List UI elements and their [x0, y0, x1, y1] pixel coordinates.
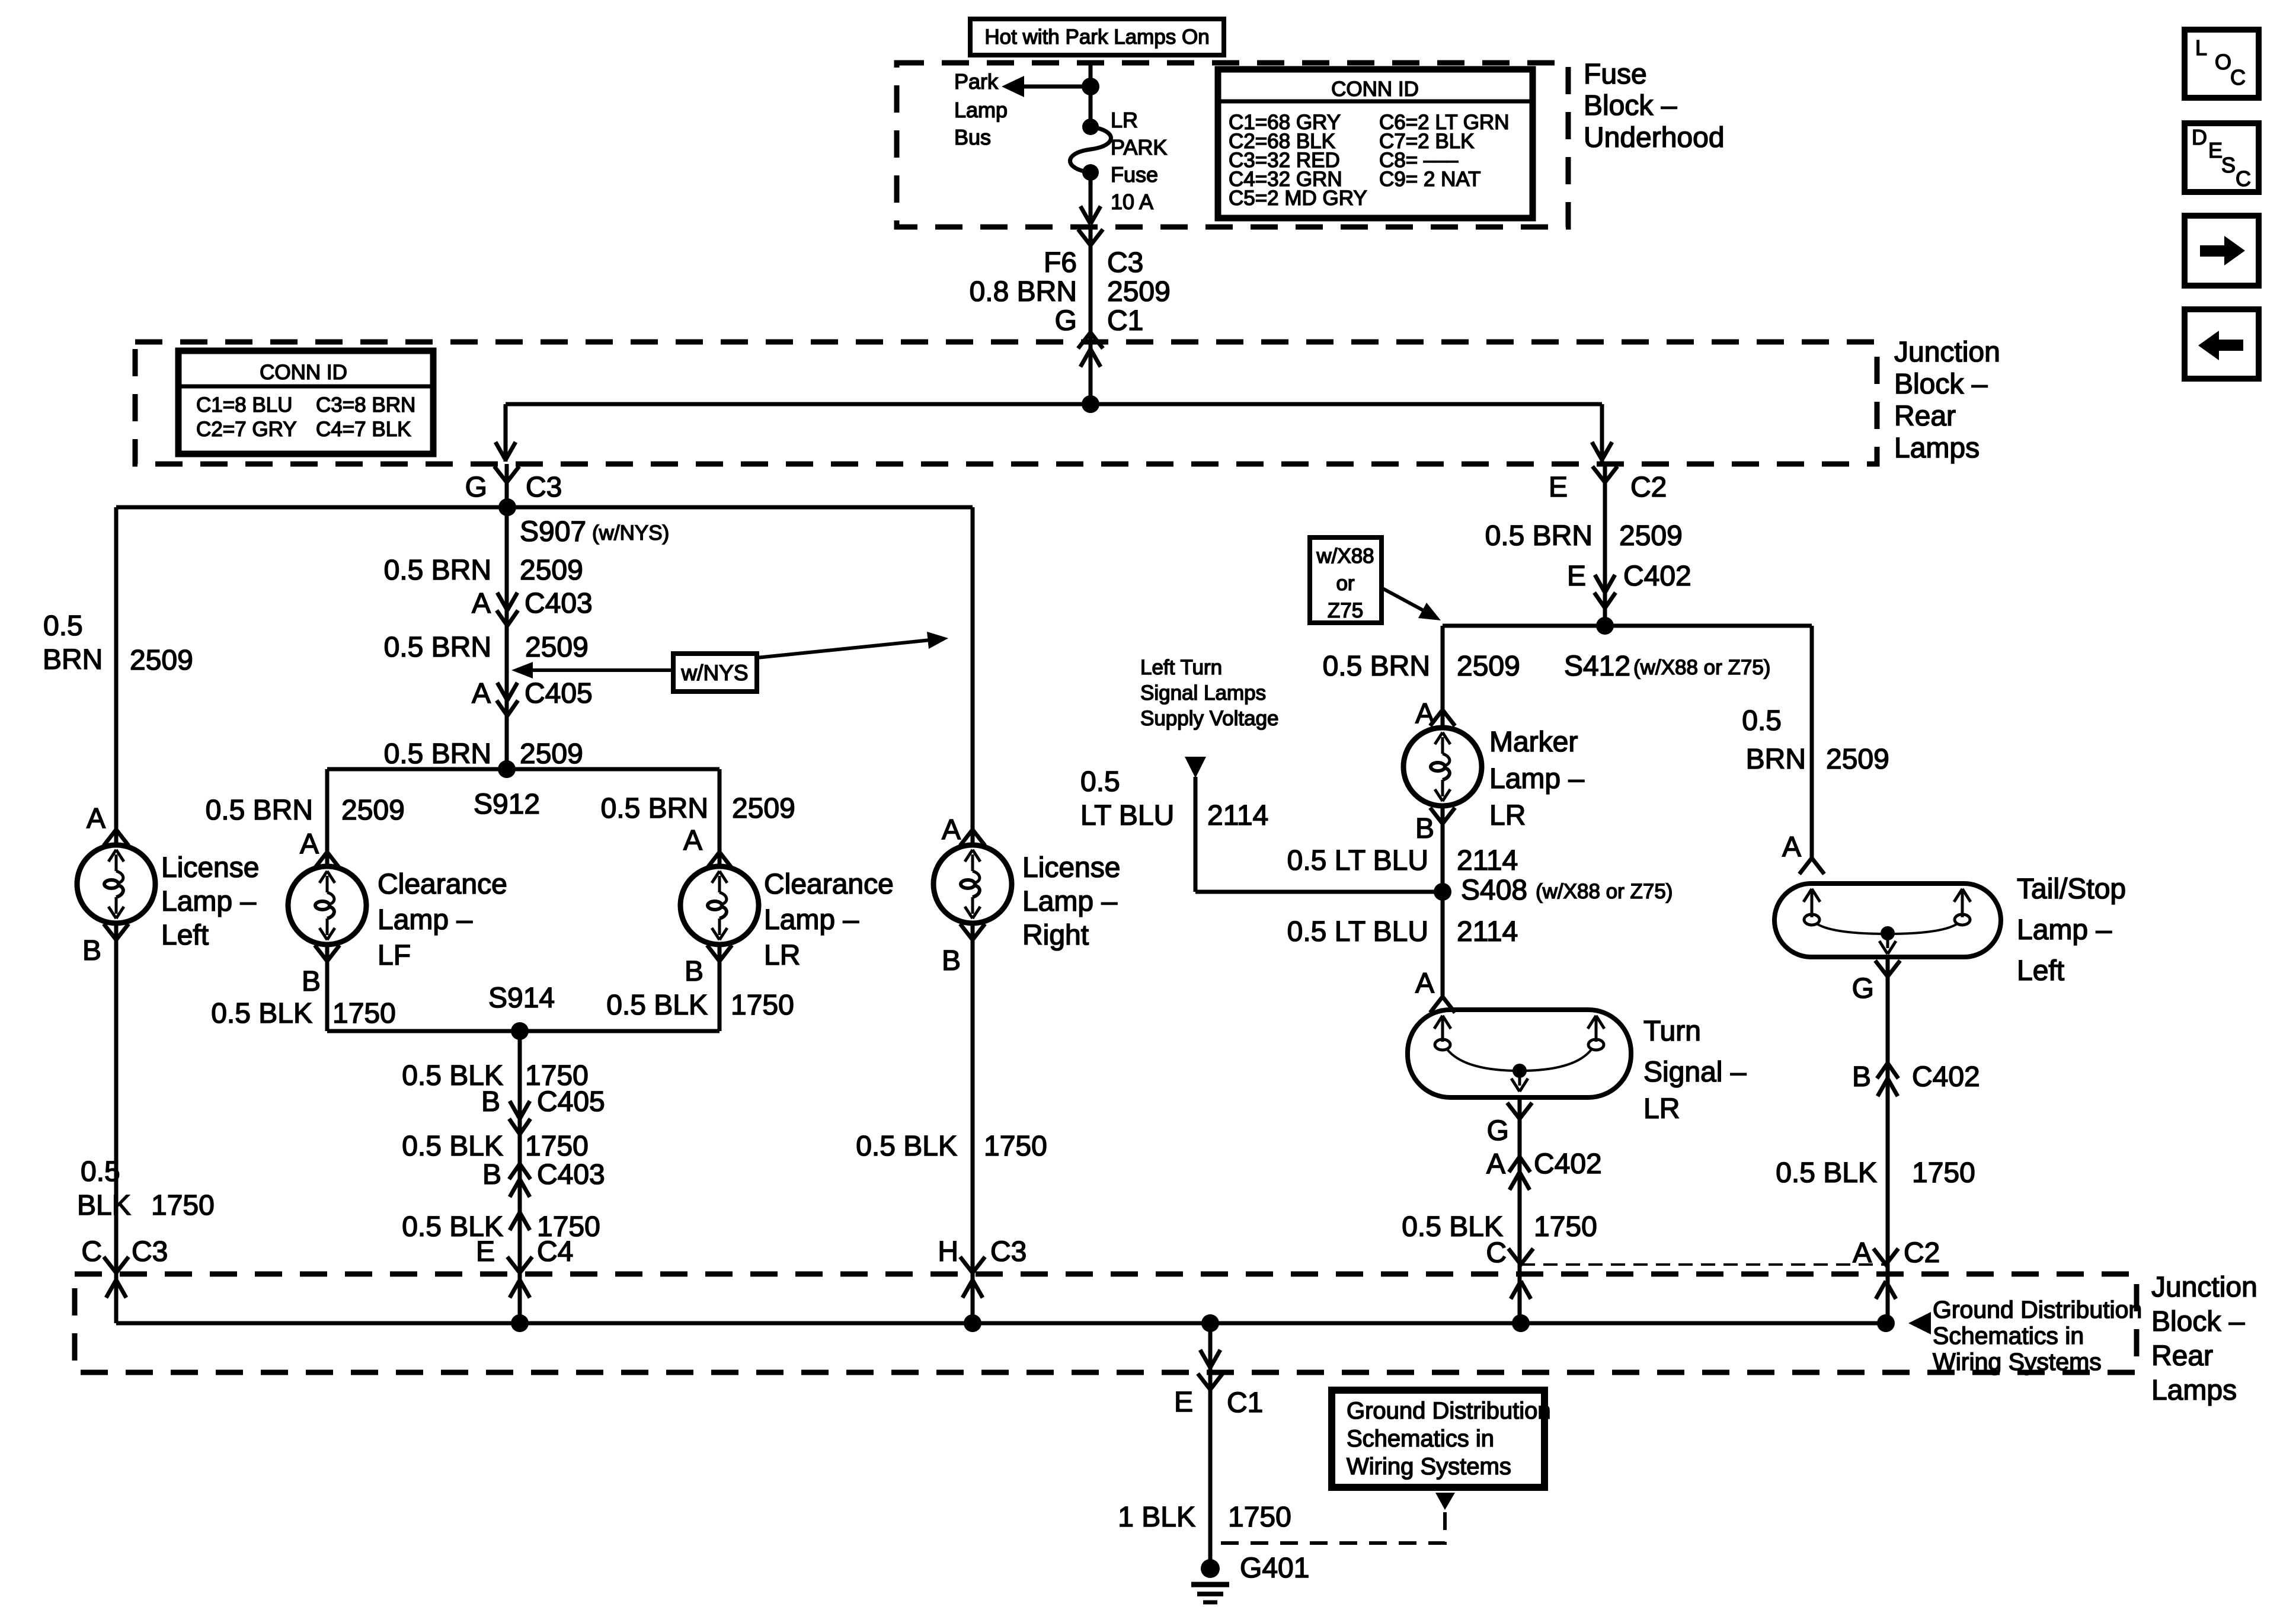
- svg-text:(w/NYS): (w/NYS): [592, 521, 669, 545]
- svg-text:0.5 BLK: 0.5 BLK: [402, 1131, 503, 1162]
- svg-text:Marker: Marker: [1489, 726, 1578, 758]
- svg-text:B: B: [82, 935, 101, 966]
- svg-text:B: B: [482, 1159, 501, 1190]
- svg-text:S907: S907: [520, 516, 586, 548]
- svg-text:C: C: [1486, 1237, 1507, 1269]
- svg-text:Lamps: Lamps: [1894, 433, 1980, 464]
- svg-text:C402: C402: [1534, 1148, 1602, 1180]
- svg-text:LT BLU: LT BLU: [1080, 800, 1174, 831]
- svg-text:0.5 BRN: 0.5 BRN: [384, 738, 491, 770]
- svg-text:Lamps: Lamps: [2151, 1375, 2237, 1406]
- svg-text:0.5 BRN: 0.5 BRN: [601, 793, 708, 824]
- svg-text:LF: LF: [378, 940, 411, 971]
- svg-text:Wiring Systems: Wiring Systems: [1347, 1454, 1511, 1480]
- svg-text:G: G: [465, 472, 487, 503]
- svg-text:Bus: Bus: [954, 125, 991, 149]
- svg-text:C: C: [2236, 167, 2251, 191]
- svg-text:1750: 1750: [984, 1131, 1047, 1162]
- svg-text:A: A: [1782, 831, 1801, 863]
- svg-text:License: License: [161, 852, 259, 884]
- svg-text:C2: C2: [1904, 1237, 1940, 1269]
- svg-text:LR: LR: [1489, 800, 1526, 831]
- svg-text:Fuse: Fuse: [1111, 162, 1158, 187]
- svg-text:C402: C402: [1912, 1061, 1980, 1093]
- svg-text:LR: LR: [1643, 1093, 1680, 1125]
- svg-text:B: B: [685, 956, 703, 987]
- svg-text:2509: 2509: [520, 738, 583, 770]
- svg-text:Wiring Systems: Wiring Systems: [1933, 1348, 2102, 1375]
- svg-text:C: C: [2230, 65, 2246, 89]
- svg-text:G: G: [1487, 1115, 1509, 1147]
- svg-text:Ground Distribution: Ground Distribution: [1933, 1296, 2142, 1323]
- svg-text:10 A: 10 A: [1111, 190, 1153, 214]
- svg-text:Park: Park: [954, 69, 999, 94]
- svg-text:C3: C3: [526, 472, 562, 503]
- svg-text:B: B: [942, 945, 961, 977]
- svg-text:C1=8 BLU: C1=8 BLU: [196, 393, 292, 417]
- svg-text:1750: 1750: [1912, 1157, 1975, 1189]
- svg-text:0.5 BLK: 0.5 BLK: [211, 998, 312, 1029]
- svg-text:w/NYS: w/NYS: [680, 661, 748, 685]
- svg-text:Clearance: Clearance: [378, 869, 507, 900]
- svg-text:L: L: [2195, 36, 2207, 60]
- svg-text:O: O: [2215, 50, 2231, 74]
- svg-text:C402: C402: [1623, 561, 1691, 592]
- svg-text:A: A: [942, 814, 961, 846]
- svg-text:Ground Distribution: Ground Distribution: [1347, 1398, 1551, 1424]
- svg-text:Signal –: Signal –: [1643, 1057, 1747, 1088]
- svg-text:C9= 2 NAT: C9= 2 NAT: [1379, 168, 1481, 191]
- svg-text:Z75: Z75: [1328, 599, 1363, 622]
- svg-text:C403: C403: [537, 1159, 605, 1190]
- svg-text:2509: 2509: [1619, 520, 1683, 552]
- svg-text:C3: C3: [990, 1236, 1027, 1267]
- svg-text:or: or: [1336, 572, 1354, 595]
- svg-text:0.8 BRN: 0.8 BRN: [970, 276, 1077, 308]
- svg-text:Hot with Park Lamps On: Hot with Park Lamps On: [984, 25, 1209, 49]
- svg-text:S912: S912: [474, 789, 540, 820]
- svg-text:0.5 LT BLU: 0.5 LT BLU: [1287, 845, 1428, 876]
- svg-text:B: B: [302, 966, 321, 997]
- svg-text:A: A: [683, 825, 702, 856]
- svg-text:0.5: 0.5: [81, 1156, 120, 1188]
- svg-text:A: A: [1415, 968, 1434, 999]
- svg-text:0.5: 0.5: [1080, 766, 1120, 798]
- svg-text:Fuse: Fuse: [1584, 59, 1647, 90]
- svg-text:Clearance: Clearance: [764, 869, 894, 900]
- svg-text:CONN ID: CONN ID: [1331, 78, 1419, 101]
- svg-text:B: B: [1415, 813, 1434, 844]
- svg-text:(w/X88 or Z75): (w/X88 or Z75): [1633, 656, 1770, 679]
- svg-text:1750: 1750: [525, 1131, 589, 1162]
- svg-text:Block –: Block –: [1894, 369, 1988, 400]
- svg-text:A: A: [1415, 698, 1434, 729]
- svg-text:1750: 1750: [1534, 1211, 1597, 1243]
- svg-text:C403: C403: [525, 588, 593, 619]
- svg-text:1750: 1750: [731, 990, 794, 1021]
- svg-text:Underhood: Underhood: [1584, 122, 1725, 153]
- svg-text:Junction: Junction: [1894, 337, 2000, 368]
- svg-text:Rear: Rear: [1894, 401, 1956, 432]
- svg-text:w/X88: w/X88: [1316, 545, 1374, 568]
- svg-text:Block –: Block –: [2151, 1306, 2245, 1337]
- svg-text:0.5 BRN: 0.5 BRN: [1485, 520, 1593, 552]
- svg-text:A: A: [300, 828, 319, 860]
- svg-text:C3: C3: [132, 1236, 168, 1267]
- svg-text:1750: 1750: [151, 1190, 215, 1221]
- svg-text:PARK: PARK: [1111, 135, 1167, 159]
- svg-text:Tail/Stop: Tail/Stop: [2017, 873, 2126, 905]
- svg-text:C2: C2: [1630, 472, 1667, 503]
- svg-text:2509: 2509: [1107, 276, 1171, 308]
- svg-text:0.5 LT BLU: 0.5 LT BLU: [1287, 916, 1428, 948]
- svg-text:CONN ID: CONN ID: [260, 361, 347, 384]
- svg-text:2114: 2114: [1207, 800, 1268, 831]
- svg-text:C3=8 BRN: C3=8 BRN: [316, 393, 415, 417]
- svg-text:2509: 2509: [1826, 744, 1889, 775]
- svg-text:BRN: BRN: [43, 644, 103, 676]
- svg-text:G401: G401: [1240, 1553, 1309, 1584]
- svg-text:A: A: [1853, 1237, 1872, 1269]
- svg-text:G: G: [1852, 973, 1874, 1004]
- svg-text:C3: C3: [1107, 247, 1143, 279]
- svg-text:C405: C405: [525, 678, 593, 709]
- svg-text:E: E: [1174, 1387, 1193, 1418]
- svg-text:Turn: Turn: [1643, 1016, 1701, 1047]
- svg-text:Lamp: Lamp: [954, 98, 1008, 122]
- svg-text:E: E: [2208, 138, 2223, 162]
- svg-text:D: D: [2192, 125, 2207, 149]
- svg-text:A: A: [472, 588, 491, 619]
- svg-text:A: A: [1486, 1148, 1505, 1180]
- svg-text:G: G: [1055, 305, 1077, 337]
- svg-text:C: C: [81, 1236, 102, 1267]
- svg-text:H: H: [938, 1236, 958, 1267]
- svg-text:Right: Right: [1022, 920, 1089, 951]
- svg-text:Schematics in: Schematics in: [1347, 1426, 1494, 1452]
- svg-text:0.5 BRN: 0.5 BRN: [384, 555, 491, 586]
- svg-text:S: S: [2221, 153, 2236, 177]
- svg-text:Schematics in: Schematics in: [1933, 1322, 2084, 1349]
- svg-text:0.5 BRN: 0.5 BRN: [206, 795, 313, 826]
- svg-text:B: B: [1852, 1061, 1871, 1093]
- svg-text:C5=2 MD GRY: C5=2 MD GRY: [1229, 187, 1367, 210]
- svg-text:E: E: [1567, 561, 1586, 592]
- svg-text:E: E: [476, 1236, 495, 1267]
- svg-text:S412: S412: [1564, 651, 1630, 682]
- svg-text:A: A: [87, 803, 105, 834]
- svg-text:1750: 1750: [1228, 1502, 1291, 1533]
- svg-text:2114: 2114: [1457, 845, 1518, 876]
- svg-text:B: B: [481, 1086, 500, 1118]
- svg-text:2509: 2509: [520, 555, 583, 586]
- svg-text:0.5: 0.5: [1742, 705, 1782, 737]
- svg-text:LR: LR: [1111, 108, 1138, 132]
- svg-text:Left: Left: [161, 920, 209, 951]
- svg-text:LR: LR: [764, 940, 800, 971]
- svg-text:S914: S914: [488, 982, 555, 1014]
- svg-text:Left: Left: [2017, 955, 2064, 987]
- svg-text:Lamp –: Lamp –: [1022, 886, 1117, 917]
- svg-text:Lamp –: Lamp –: [161, 886, 256, 917]
- svg-text:2509: 2509: [130, 645, 193, 676]
- svg-text:C1: C1: [1227, 1387, 1263, 1419]
- svg-text:0.5 BLK: 0.5 BLK: [856, 1131, 957, 1162]
- svg-text:A: A: [472, 678, 491, 709]
- svg-text:2509: 2509: [341, 795, 405, 826]
- svg-text:2509: 2509: [732, 793, 795, 824]
- svg-text:C1: C1: [1107, 305, 1143, 337]
- svg-text:Rear: Rear: [2151, 1340, 2213, 1372]
- svg-text:1750: 1750: [332, 998, 396, 1029]
- svg-text:0.5 BLK: 0.5 BLK: [1776, 1157, 1877, 1189]
- svg-text:C4: C4: [537, 1236, 573, 1267]
- svg-text:BRN: BRN: [1746, 744, 1806, 775]
- svg-text:Lamp –: Lamp –: [378, 904, 472, 936]
- svg-text:S408: S408: [1461, 875, 1527, 906]
- svg-text:Lamp –: Lamp –: [764, 904, 859, 936]
- svg-text:F6: F6: [1044, 247, 1077, 279]
- svg-text:(w/X88 or Z75): (w/X88 or Z75): [1536, 880, 1673, 903]
- svg-text:0.5 BRN: 0.5 BRN: [1323, 651, 1430, 682]
- svg-text:C405: C405: [537, 1086, 605, 1118]
- svg-text:0.5 BLK: 0.5 BLK: [606, 990, 708, 1021]
- svg-text:Signal Lamps: Signal Lamps: [1140, 681, 1266, 705]
- svg-text:Lamp –: Lamp –: [2017, 914, 2112, 946]
- svg-text:0.5 BRN: 0.5 BRN: [384, 632, 491, 663]
- svg-text:C4=7 BLK: C4=7 BLK: [316, 418, 411, 441]
- svg-text:E: E: [1549, 472, 1568, 503]
- svg-text:C2=7 GRY: C2=7 GRY: [196, 418, 297, 441]
- svg-text:Block –: Block –: [1584, 90, 1677, 121]
- svg-text:Supply Voltage: Supply Voltage: [1140, 707, 1279, 730]
- svg-text:Junction: Junction: [2151, 1272, 2257, 1303]
- svg-text:Left Turn: Left Turn: [1140, 656, 1222, 679]
- svg-text:0.5: 0.5: [43, 610, 83, 642]
- svg-text:2509: 2509: [525, 632, 589, 663]
- svg-text:License: License: [1022, 852, 1120, 884]
- svg-text:BLK: BLK: [77, 1190, 131, 1221]
- svg-text:Lamp –: Lamp –: [1489, 763, 1584, 795]
- svg-text:2114: 2114: [1457, 916, 1518, 948]
- svg-text:1 BLK: 1 BLK: [1118, 1502, 1195, 1533]
- svg-text:2509: 2509: [1457, 651, 1520, 682]
